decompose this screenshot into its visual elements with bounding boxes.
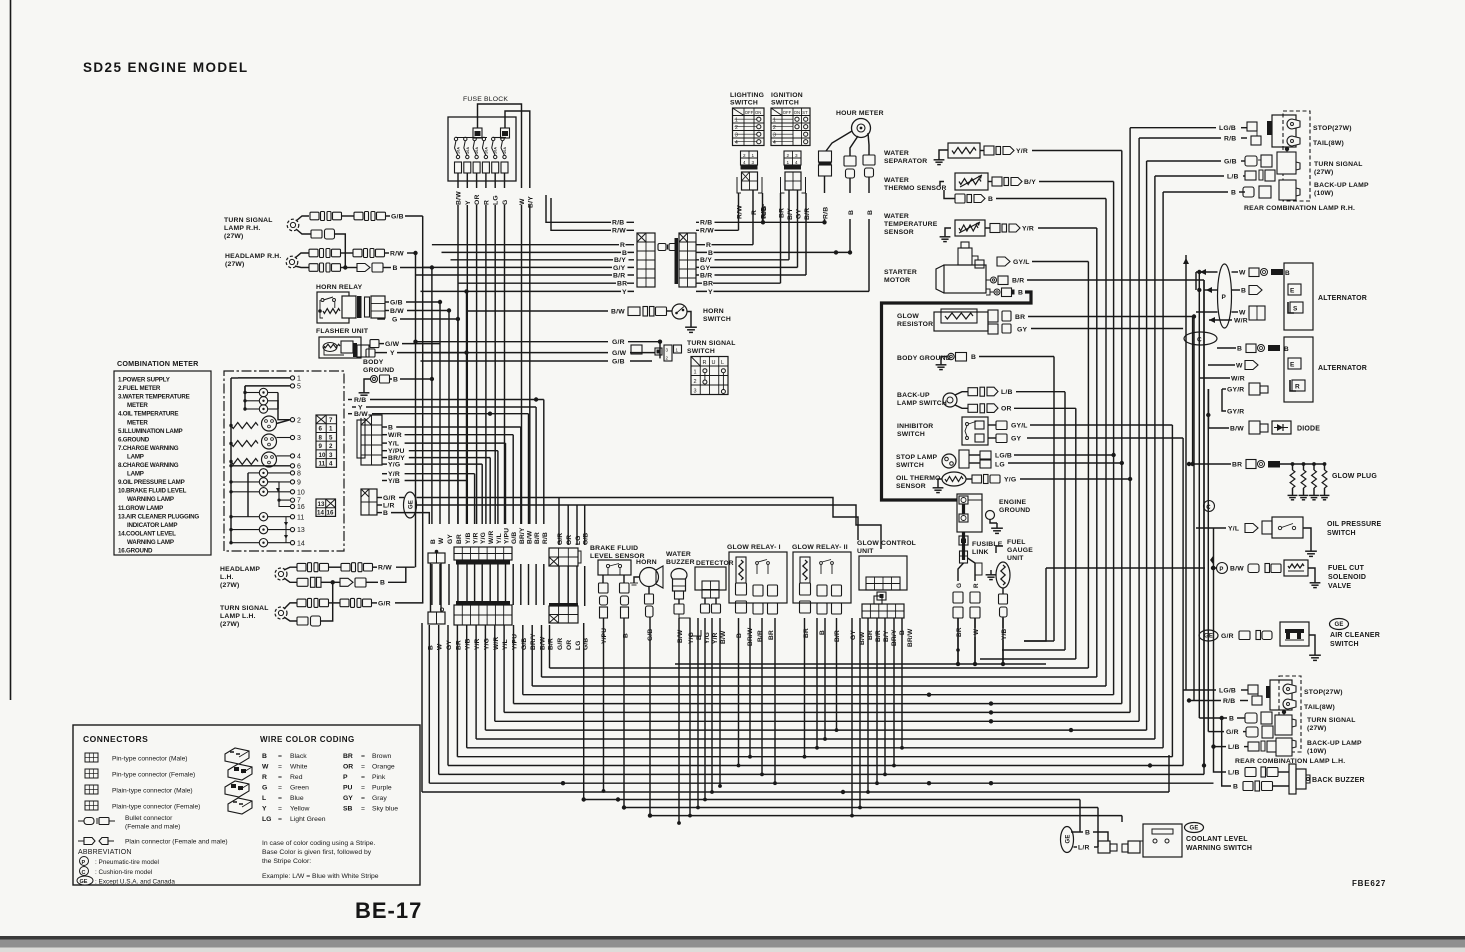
svg-text:L.H.: L.H.	[220, 574, 234, 581]
legend bullet connector row	[78, 815, 180, 831]
svg-text:(27W): (27W)	[1307, 725, 1327, 732]
svg-text:B: B	[1231, 189, 1236, 196]
svg-text:ST: ST	[802, 110, 808, 115]
wire G/B to rear lamp R.H.	[1147, 158, 1245, 166]
svg-text:SB: SB	[343, 806, 353, 813]
svg-text:BR: BR	[1015, 314, 1025, 321]
legend abbreviation rows	[77, 849, 175, 886]
svg-text:BR: BR	[343, 753, 353, 760]
svg-text:In case of color coding using: In case of color coding using a Stripe.	[262, 840, 375, 847]
engine ground label	[999, 499, 1030, 514]
rear combination lamp R.H. connectors	[1243, 122, 1275, 198]
svg-text:5: 5	[297, 384, 301, 391]
svg-text:(27W): (27W)	[220, 582, 240, 589]
alternator C terminal oval	[1184, 332, 1217, 345]
svg-text:LG/B: LG/B	[1219, 125, 1236, 132]
svg-text:8: 8	[297, 471, 301, 478]
svg-text:R: R	[703, 360, 707, 366]
glow relay-II connectors and labels	[800, 601, 858, 642]
svg-text:W: W	[1239, 309, 1246, 316]
svg-text:R/W: R/W	[378, 565, 392, 572]
band labels left of connector	[611, 219, 629, 296]
svg-text:G/R: G/R	[557, 533, 564, 545]
svg-text:BUZZER: BUZZER	[666, 559, 695, 566]
svg-text:B/R: B/R	[875, 630, 882, 642]
svg-text:B/W: B/W	[390, 308, 404, 315]
legend plain connector row	[78, 838, 228, 846]
svg-text:P: P	[82, 860, 86, 866]
svg-text:G/B: G/B	[511, 532, 518, 544]
svg-text:G: G	[956, 583, 963, 588]
headlamp R.H. wires R/W and B	[295, 249, 434, 273]
svg-text:=: =	[278, 795, 282, 802]
svg-text:B: B	[383, 510, 388, 517]
glow resistor label	[897, 313, 933, 328]
svg-text:TURN SIGNAL: TURN SIGNAL	[687, 340, 736, 347]
rear combination lamp R.H. labels	[1244, 125, 1369, 212]
fusible link label	[972, 541, 1003, 556]
lower 2-pin connector	[428, 608, 445, 624]
svg-text:PU: PU	[343, 785, 353, 792]
turn signal lamp R.H. bulb	[287, 219, 299, 231]
svg-text:=: =	[278, 753, 282, 760]
ignition switch pin connector	[784, 151, 801, 170]
svg-text:G/B: G/B	[391, 213, 404, 220]
svg-text:2: 2	[297, 417, 301, 424]
svg-text:G/B: G/B	[583, 533, 590, 545]
svg-text:SWITCH: SWITCH	[1330, 641, 1359, 648]
legend 3D connector drawings	[225, 748, 252, 814]
wire L/B to rear lamp R.H.	[1155, 173, 1245, 181]
svg-text:W: W	[437, 643, 444, 650]
hour meter gauge	[852, 119, 871, 138]
svg-text:SENSOR: SENSOR	[896, 483, 926, 490]
svg-text:WARNING LAMP: WARNING LAMP	[127, 539, 174, 546]
svg-text:4: 4	[773, 140, 776, 146]
svg-text:G/R: G/R	[378, 600, 391, 607]
upper 12-pin connector strip	[454, 547, 512, 565]
svg-text:LG: LG	[493, 195, 500, 205]
svg-text:GY: GY	[850, 630, 857, 640]
svg-text:the Stripe Color:: the Stripe Color:	[262, 858, 311, 865]
svg-text:1: 1	[297, 376, 301, 383]
svg-text:: Pneumatic-tire model: : Pneumatic-tire model	[95, 859, 159, 866]
svg-text:LG: LG	[995, 461, 1005, 468]
svg-text:BR/Y: BR/Y	[519, 527, 526, 544]
svg-text:U: U	[712, 360, 716, 366]
svg-text:R/W: R/W	[612, 228, 626, 235]
wire band R/B R/W R B B/Y G/Y B/R BR Y - left of connector	[416, 195, 635, 291]
meter wires R/B Y B/W to the right	[348, 396, 544, 524]
svg-text:WATER: WATER	[884, 177, 909, 184]
svg-text:9.OIL PRESSURE LAMP: 9.OIL PRESSURE LAMP	[118, 479, 185, 486]
meter wires B W/R Y/L Y/PU BR/Y Y/G Y/R Y/B	[382, 424, 521, 524]
svg-text:R: R	[262, 774, 267, 781]
svg-text:METER: METER	[127, 402, 148, 409]
svg-text:(Female and male): (Female and male)	[125, 824, 180, 831]
svg-text:TURN SIGNAL: TURN SIGNAL	[220, 605, 269, 612]
svg-text:BR: BR	[456, 534, 463, 544]
svg-text:4: 4	[735, 140, 738, 146]
svg-text:=: =	[361, 774, 365, 781]
oil pressure switch	[1196, 517, 1382, 556]
svg-text:10A: 10A	[484, 147, 488, 154]
lighting switch riser wires R/W R R/B	[737, 190, 768, 245]
fuse output wire drops to meter connector strip	[458, 205, 530, 524]
svg-text:B: B	[430, 539, 437, 544]
svg-text:G/R: G/R	[1226, 729, 1239, 736]
svg-text:LAMP R.H.: LAMP R.H.	[224, 225, 260, 232]
meter GE tag wires G/R L/R B	[361, 489, 881, 549]
svg-text:4: 4	[329, 461, 333, 468]
svg-text:B/Y: B/Y	[1024, 179, 1036, 186]
svg-text:STOP LAMP: STOP LAMP	[896, 454, 937, 461]
svg-text:SENSOR: SENSOR	[884, 229, 914, 236]
svg-text:GE: GE	[1334, 622, 1343, 628]
svg-text:GY/L: GY/L	[1013, 259, 1030, 266]
svg-text:L/B: L/B	[1001, 389, 1013, 396]
svg-text:Y/G: Y/G	[1004, 476, 1016, 483]
svg-text:BE-17: BE-17	[355, 898, 422, 923]
svg-text:Y/G: Y/G	[480, 532, 487, 544]
svg-text:B: B	[867, 210, 874, 215]
svg-text:=: =	[361, 806, 365, 813]
coolant level warning switch	[1140, 823, 1252, 858]
upper 2-pin connector	[428, 550, 445, 563]
svg-text:B/R: B/R	[1012, 277, 1024, 284]
svg-text:White: White	[290, 764, 308, 771]
glow relay-I box	[729, 552, 787, 603]
horn relay wires G/B B/W G	[378, 299, 460, 324]
svg-text:Y/G: Y/G	[388, 462, 400, 469]
horn relay box	[317, 292, 349, 323]
svg-text:BACK BUZZER: BACK BUZZER	[1312, 777, 1365, 784]
svg-text:B/Y: B/Y	[787, 208, 794, 220]
svg-text:ABBREVIATION: ABBREVIATION	[78, 849, 132, 856]
svg-text:B/W: B/W	[1230, 425, 1244, 432]
svg-text:L/B: L/B	[1228, 769, 1240, 776]
svg-text:B/W: B/W	[456, 191, 463, 205]
svg-text:R/W: R/W	[390, 250, 404, 257]
svg-text:TAIL(8W): TAIL(8W)	[1304, 704, 1335, 711]
legend pin-type connector icons and rows	[85, 753, 200, 811]
svg-text:VALVE: VALVE	[1328, 583, 1351, 590]
svg-text:L: L	[721, 360, 724, 366]
fuel gauge unit label	[1007, 539, 1033, 562]
svg-text:Y/G: Y/G	[688, 632, 695, 644]
svg-text:METER: METER	[127, 419, 148, 426]
svg-text:Y/PU: Y/PU	[512, 634, 519, 650]
glow relay-I connectors and labels	[736, 601, 778, 646]
svg-text:=: =	[361, 785, 365, 792]
svg-text:B/W: B/W	[677, 629, 684, 643]
right bundle top step wires	[1024, 568, 1213, 650]
svg-text:3: 3	[297, 435, 301, 442]
svg-text:5.ILLUMINATION LAMP: 5.ILLUMINATION LAMP	[118, 428, 183, 435]
svg-text:(27W): (27W)	[225, 261, 245, 268]
lighting switch pin connector	[741, 151, 758, 170]
svg-text:BR/Y: BR/Y	[530, 633, 537, 650]
svg-text:BRAKE FLUID: BRAKE FLUID	[590, 545, 638, 552]
turn signal switch wires G/R G/W G/B	[413, 339, 662, 366]
rear combination lamp L.H. labels	[1235, 689, 1362, 765]
ignition switch label	[771, 92, 803, 107]
svg-text:SEPARATOR: SEPARATOR	[884, 158, 927, 165]
svg-text:4: 4	[795, 160, 798, 165]
svg-text:STOP(27W): STOP(27W)	[1304, 689, 1343, 696]
engine ground	[957, 494, 1003, 533]
water temperature sensor	[940, 220, 1097, 242]
svg-text:HEADLAMP: HEADLAMP	[220, 566, 260, 573]
upper 4-pin connector with X	[549, 548, 581, 566]
svg-text:13.AIR CLEANER PLUGGING: 13.AIR CLEANER PLUGGING	[118, 513, 199, 520]
svg-text:B: B	[1285, 270, 1290, 277]
svg-text:TURN SIGNAL: TURN SIGNAL	[1314, 161, 1363, 168]
svg-text:WARNING LAMP: WARNING LAMP	[127, 496, 174, 503]
hour meter riser wire labels R/B B B Y	[822, 207, 874, 292]
svg-text:SWITCH: SWITCH	[771, 100, 799, 107]
svg-text:MOTOR: MOTOR	[884, 277, 910, 284]
rear combination lamp L.H. wires	[1183, 687, 1249, 751]
wire color coding table	[260, 735, 398, 823]
svg-text:G/B: G/B	[612, 358, 625, 365]
rear combination lamp L.H. lamp unit	[1266, 676, 1301, 756]
rear combination lamp L.H. connectors	[1245, 685, 1277, 752]
svg-text:Plain-type connector (Female): Plain-type connector (Female)	[112, 804, 200, 811]
svg-text:WATER: WATER	[884, 213, 909, 220]
svg-text:P: P	[343, 774, 348, 781]
right vertical wire bundle	[1054, 128, 1204, 775]
svg-text:TEMPERATURE: TEMPERATURE	[884, 221, 938, 228]
svg-text:13: 13	[318, 501, 325, 508]
svg-text:FUEL: FUEL	[1007, 539, 1026, 546]
svg-text:R/B: R/B	[354, 397, 366, 404]
svg-text:Base Color is given first, fol: Base Color is given first, followed by	[262, 849, 372, 856]
svg-text:COOLANT LEVEL: COOLANT LEVEL	[1186, 836, 1248, 843]
svg-text:B: B	[988, 196, 993, 203]
svg-text:3: 3	[329, 452, 333, 459]
svg-text:10A: 10A	[475, 147, 479, 154]
svg-text:B: B	[708, 250, 713, 257]
svg-text:Y: Y	[465, 200, 472, 205]
svg-text:SWITCH: SWITCH	[1327, 530, 1356, 537]
back-up lamp switch	[943, 387, 1076, 413]
svg-text:S: S	[1293, 306, 1298, 313]
svg-text:1.POWER SUPPLY: 1.POWER SUPPLY	[118, 377, 171, 384]
svg-text:LG: LG	[575, 640, 582, 650]
svg-text:BACK-UP LAMP: BACK-UP LAMP	[1307, 740, 1362, 747]
svg-text:10.BRAKE FLUID LEVEL: 10.BRAKE FLUID LEVEL	[118, 488, 187, 495]
fusible link	[953, 532, 982, 664]
svg-text:LAMP SWITCH: LAMP SWITCH	[897, 400, 947, 407]
band connector block right (multi-pin female)	[675, 233, 697, 287]
svg-text:IGNITION: IGNITION	[771, 92, 803, 99]
svg-text:Y: Y	[262, 806, 267, 813]
fuse block box	[448, 117, 516, 181]
wires to coolant level switch	[922, 792, 935, 847]
C circle mid	[1204, 501, 1215, 512]
combination meter legend box	[114, 371, 211, 555]
svg-text:R: R	[706, 242, 711, 249]
svg-text:GE: GE	[80, 879, 88, 885]
svg-text:GY: GY	[343, 795, 353, 802]
svg-text:B: B	[380, 580, 385, 587]
water separator sensor	[934, 143, 1122, 165]
svg-text:BR: BR	[455, 640, 462, 650]
svg-text:CONNECTORS: CONNECTORS	[83, 734, 148, 744]
svg-text:Y/B: Y/B	[465, 532, 472, 544]
svg-text:13: 13	[297, 527, 305, 534]
svg-text:B/Y: B/Y	[883, 630, 890, 642]
svg-text:OR: OR	[343, 764, 353, 771]
svg-text:6: 6	[319, 426, 323, 433]
svg-text:Y/L: Y/L	[496, 533, 503, 544]
svg-text:LAMP: LAMP	[127, 471, 144, 478]
svg-text:Bullet connector: Bullet connector	[125, 815, 173, 822]
svg-text:G/Y: G/Y	[613, 265, 626, 272]
svg-text:Plain connector (Female and m: Plain connector (Female and male)	[125, 839, 228, 846]
svg-text:B: B	[1018, 289, 1023, 296]
svg-text:W: W	[262, 764, 269, 771]
wire band right of connector with risers	[696, 204, 869, 291]
stop lamp switch	[942, 450, 1122, 468]
svg-text:5: 5	[329, 434, 333, 441]
wire B to rear lamp R.H.	[1163, 189, 1245, 197]
staircase junction dots	[561, 693, 1191, 802]
svg-text:Gray: Gray	[372, 795, 387, 802]
svg-text:Y: Y	[708, 289, 713, 296]
svg-text:ALTERNATOR: ALTERNATOR	[1318, 295, 1367, 302]
svg-text:B/Y: B/Y	[700, 257, 712, 264]
svg-text:B/R: B/R	[834, 630, 841, 642]
headlamp L.H. wires R/W B	[284, 563, 415, 588]
combination meter internal bus	[230, 378, 232, 543]
svg-text:B: B	[388, 424, 393, 431]
svg-text:L/R: L/R	[1078, 844, 1090, 851]
svg-text:Pin-type connector (Female): Pin-type connector (Female)	[112, 772, 195, 779]
svg-text:BR: BR	[768, 630, 775, 640]
svg-text:GY: GY	[796, 209, 803, 219]
strip-to-strip vertical wires	[431, 563, 585, 612]
glow relay-II box	[793, 552, 851, 603]
back-up lamp switch label	[897, 392, 947, 407]
svg-text:Y/R: Y/R	[712, 632, 719, 644]
svg-text:GLOW PLUG: GLOW PLUG	[1332, 473, 1377, 480]
svg-text:W: W	[973, 628, 980, 635]
wire color coding note	[262, 840, 379, 880]
inhibitor switch	[962, 417, 1183, 445]
svg-text:RESISTOR: RESISTOR	[897, 321, 933, 328]
svg-text:Purple: Purple	[372, 785, 392, 792]
alternator 2 box	[1284, 337, 1367, 402]
svg-text:SD25 ENGINE MODEL: SD25 ENGINE MODEL	[83, 60, 249, 75]
svg-text:R/B: R/B	[700, 220, 712, 227]
svg-text:R/B: R/B	[612, 220, 624, 227]
water thermo sensor label	[884, 177, 947, 192]
svg-text:HEADLAMP R.H.: HEADLAMP R.H.	[225, 253, 281, 260]
svg-text:Blue: Blue	[290, 795, 304, 802]
svg-text:Light Green: Light Green	[290, 816, 326, 823]
svg-text:GLOW RELAY- I: GLOW RELAY- I	[727, 544, 781, 551]
svg-text:GLOW RELAY- II: GLOW RELAY- II	[792, 544, 848, 551]
svg-text:REAR COMBINATION LAMP R.H.: REAR COMBINATION LAMP R.H.	[1244, 205, 1355, 212]
horn switch wire B/W	[467, 307, 673, 317]
svg-text:B: B	[1085, 829, 1090, 836]
svg-text:BR/W: BR/W	[907, 628, 914, 647]
svg-text:GLOW: GLOW	[897, 313, 919, 320]
svg-text:3: 3	[752, 160, 755, 165]
svg-text:OFF: OFF	[745, 110, 754, 115]
svg-text:GY: GY	[447, 534, 454, 544]
svg-text:E: E	[1290, 362, 1295, 369]
alternator 1 P terminal oval	[1218, 264, 1232, 328]
svg-text:B/R: B/R	[757, 630, 764, 642]
wire B vertical headlamps	[431, 268, 433, 525]
svg-text:Y/B: Y/B	[1001, 629, 1008, 640]
svg-text:LG: LG	[262, 816, 271, 823]
svg-text:GY/L: GY/L	[1011, 422, 1028, 429]
svg-text:STARTER: STARTER	[884, 269, 917, 276]
svg-text:Example: L/W = Blue with Whit: Example: L/W = Blue with White Stripe	[262, 873, 379, 880]
svg-text:=: =	[278, 764, 282, 771]
svg-text:R: R	[1295, 384, 1300, 391]
turn signal lamp L.H. wires G/R	[284, 582, 423, 626]
svg-text:4: 4	[297, 454, 301, 461]
svg-text:R/B: R/B	[761, 206, 768, 218]
svg-text:Plain-type connector (Male): Plain-type connector (Male)	[112, 788, 193, 795]
svg-text:1: 1	[773, 118, 776, 124]
svg-text:B: B	[848, 210, 855, 215]
svg-text:GY: GY	[1011, 435, 1021, 442]
svg-text:HORN: HORN	[703, 308, 724, 315]
svg-text:1: 1	[787, 160, 790, 165]
svg-text:=: =	[278, 816, 282, 823]
svg-text:(27W): (27W)	[224, 233, 244, 240]
svg-text:Y/PU: Y/PU	[601, 628, 608, 644]
svg-text:B/W: B/W	[527, 530, 534, 544]
svg-text:W/R: W/R	[488, 531, 495, 544]
svg-text:=: =	[278, 774, 282, 781]
svg-text:8: 8	[319, 434, 323, 441]
svg-text:1: 1	[752, 153, 755, 158]
svg-text:=: =	[361, 764, 365, 771]
svg-text:B: B	[1237, 345, 1242, 352]
lighting switch table	[733, 108, 765, 146]
connectors legend box	[73, 725, 420, 885]
back buzzer	[1289, 764, 1365, 794]
wire B/Y from fuse block top	[505, 111, 530, 188]
svg-text:UNIT: UNIT	[1007, 555, 1024, 562]
svg-text:GROUND: GROUND	[999, 507, 1030, 514]
svg-text:Y/G: Y/G	[483, 638, 490, 650]
svg-text:G: G	[392, 316, 398, 323]
svg-text:P: P	[1222, 294, 1227, 301]
svg-text:W/R: W/R	[388, 432, 402, 439]
wire R/W vertical headlamps	[415, 253, 417, 567]
svg-text:W: W	[1239, 269, 1246, 276]
headlamp L.H. bulb	[275, 568, 287, 580]
svg-text:14.COOLANT LEVEL: 14.COOLANT LEVEL	[118, 530, 176, 537]
turn signal lamp R.H. label	[224, 217, 273, 240]
svg-text:B/R: B/R	[534, 532, 541, 544]
svg-text:9: 9	[297, 480, 301, 487]
svg-text:G/R: G/R	[557, 638, 564, 650]
svg-text:G/B: G/B	[390, 299, 403, 306]
svg-text:GY/R: GY/R	[1227, 386, 1244, 393]
flasher unit box	[319, 337, 369, 358]
svg-text:Black: Black	[290, 753, 307, 760]
svg-text:TAIL(8W): TAIL(8W)	[1313, 140, 1344, 147]
